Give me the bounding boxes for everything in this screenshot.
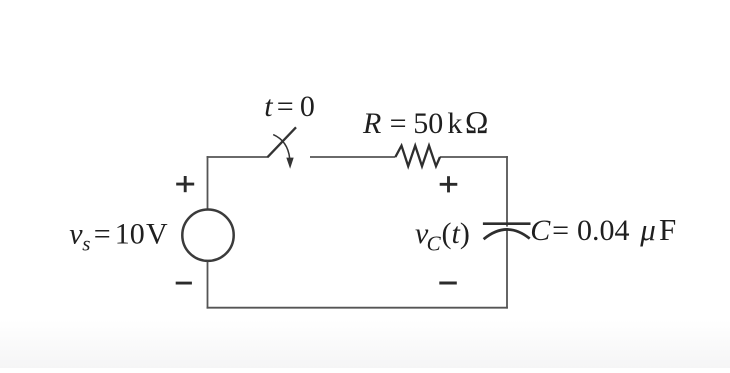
capacitor minus sign [439, 282, 457, 285]
wire right vertical lower segment [506, 229, 508, 308]
svg-text:(t): (t) [442, 217, 470, 250]
source minus sign [176, 282, 192, 285]
svg-text:R: R [362, 107, 381, 140]
svg-text:v: v [69, 218, 83, 251]
svg-text:=: = [277, 90, 294, 123]
switch closing-arc arrow [273, 135, 290, 159]
wire top-right horizontal segment (switch to resistor) [310, 156, 395, 158]
svg-text:C: C [530, 214, 551, 247]
svg-text:50: 50 [413, 107, 443, 140]
capacitor C curved bottom plate [484, 229, 530, 239]
wire right vertical upper segment [506, 156, 508, 227]
svg-text:t: t [264, 90, 273, 123]
switch SW blade [268, 127, 297, 157]
source plus sign [176, 176, 194, 192]
switch arrowhead [286, 158, 293, 169]
wire top-left horizontal segment [207, 156, 268, 158]
svg-text:=: = [552, 214, 569, 247]
svg-text:0: 0 [300, 90, 315, 123]
capacitor C top plate [483, 222, 531, 225]
svg-text:s: s [82, 232, 90, 256]
resistor R zigzag [395, 146, 440, 167]
wire left vertical lower segment [207, 262, 209, 309]
svg-text:μ: μ [639, 212, 656, 247]
wire resistor to top-right corner [440, 156, 508, 158]
capacitor plus sign [440, 176, 458, 192]
svg-text:Ω: Ω [465, 105, 488, 140]
svg-text:0.04: 0.04 [577, 214, 630, 247]
svg-text:=: = [390, 107, 407, 140]
wire bottom horizontal segment [207, 307, 508, 309]
svg-text:10: 10 [115, 218, 145, 251]
svg-text:F: F [659, 212, 676, 247]
svg-text:C: C [427, 232, 442, 256]
voltage source VS circle [182, 210, 233, 261]
wire left vertical upper segment [207, 156, 209, 209]
svg-text:V: V [146, 218, 168, 251]
svg-text:=: = [94, 218, 111, 251]
svg-text:k: k [447, 107, 462, 140]
